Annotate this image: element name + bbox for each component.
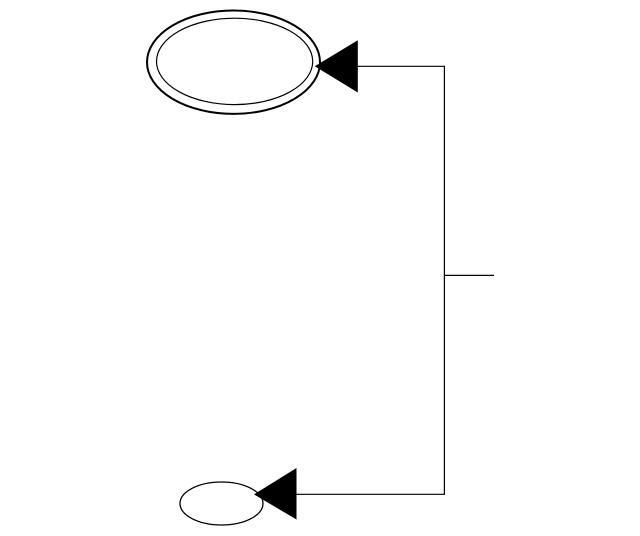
arrowhead: into small ellipse node S2 [254,468,297,520]
node S2: state (small ellipse) [180,482,263,525]
wire: stub tick on trunk at mid height [444,274,494,276]
arrowhead: into double-ellipse node S1 [315,40,358,92]
node S1: accepting state (double ellipse) [147,11,320,114]
wire: vertical trunk with top and bottom horizontal runs [297,66,445,494]
